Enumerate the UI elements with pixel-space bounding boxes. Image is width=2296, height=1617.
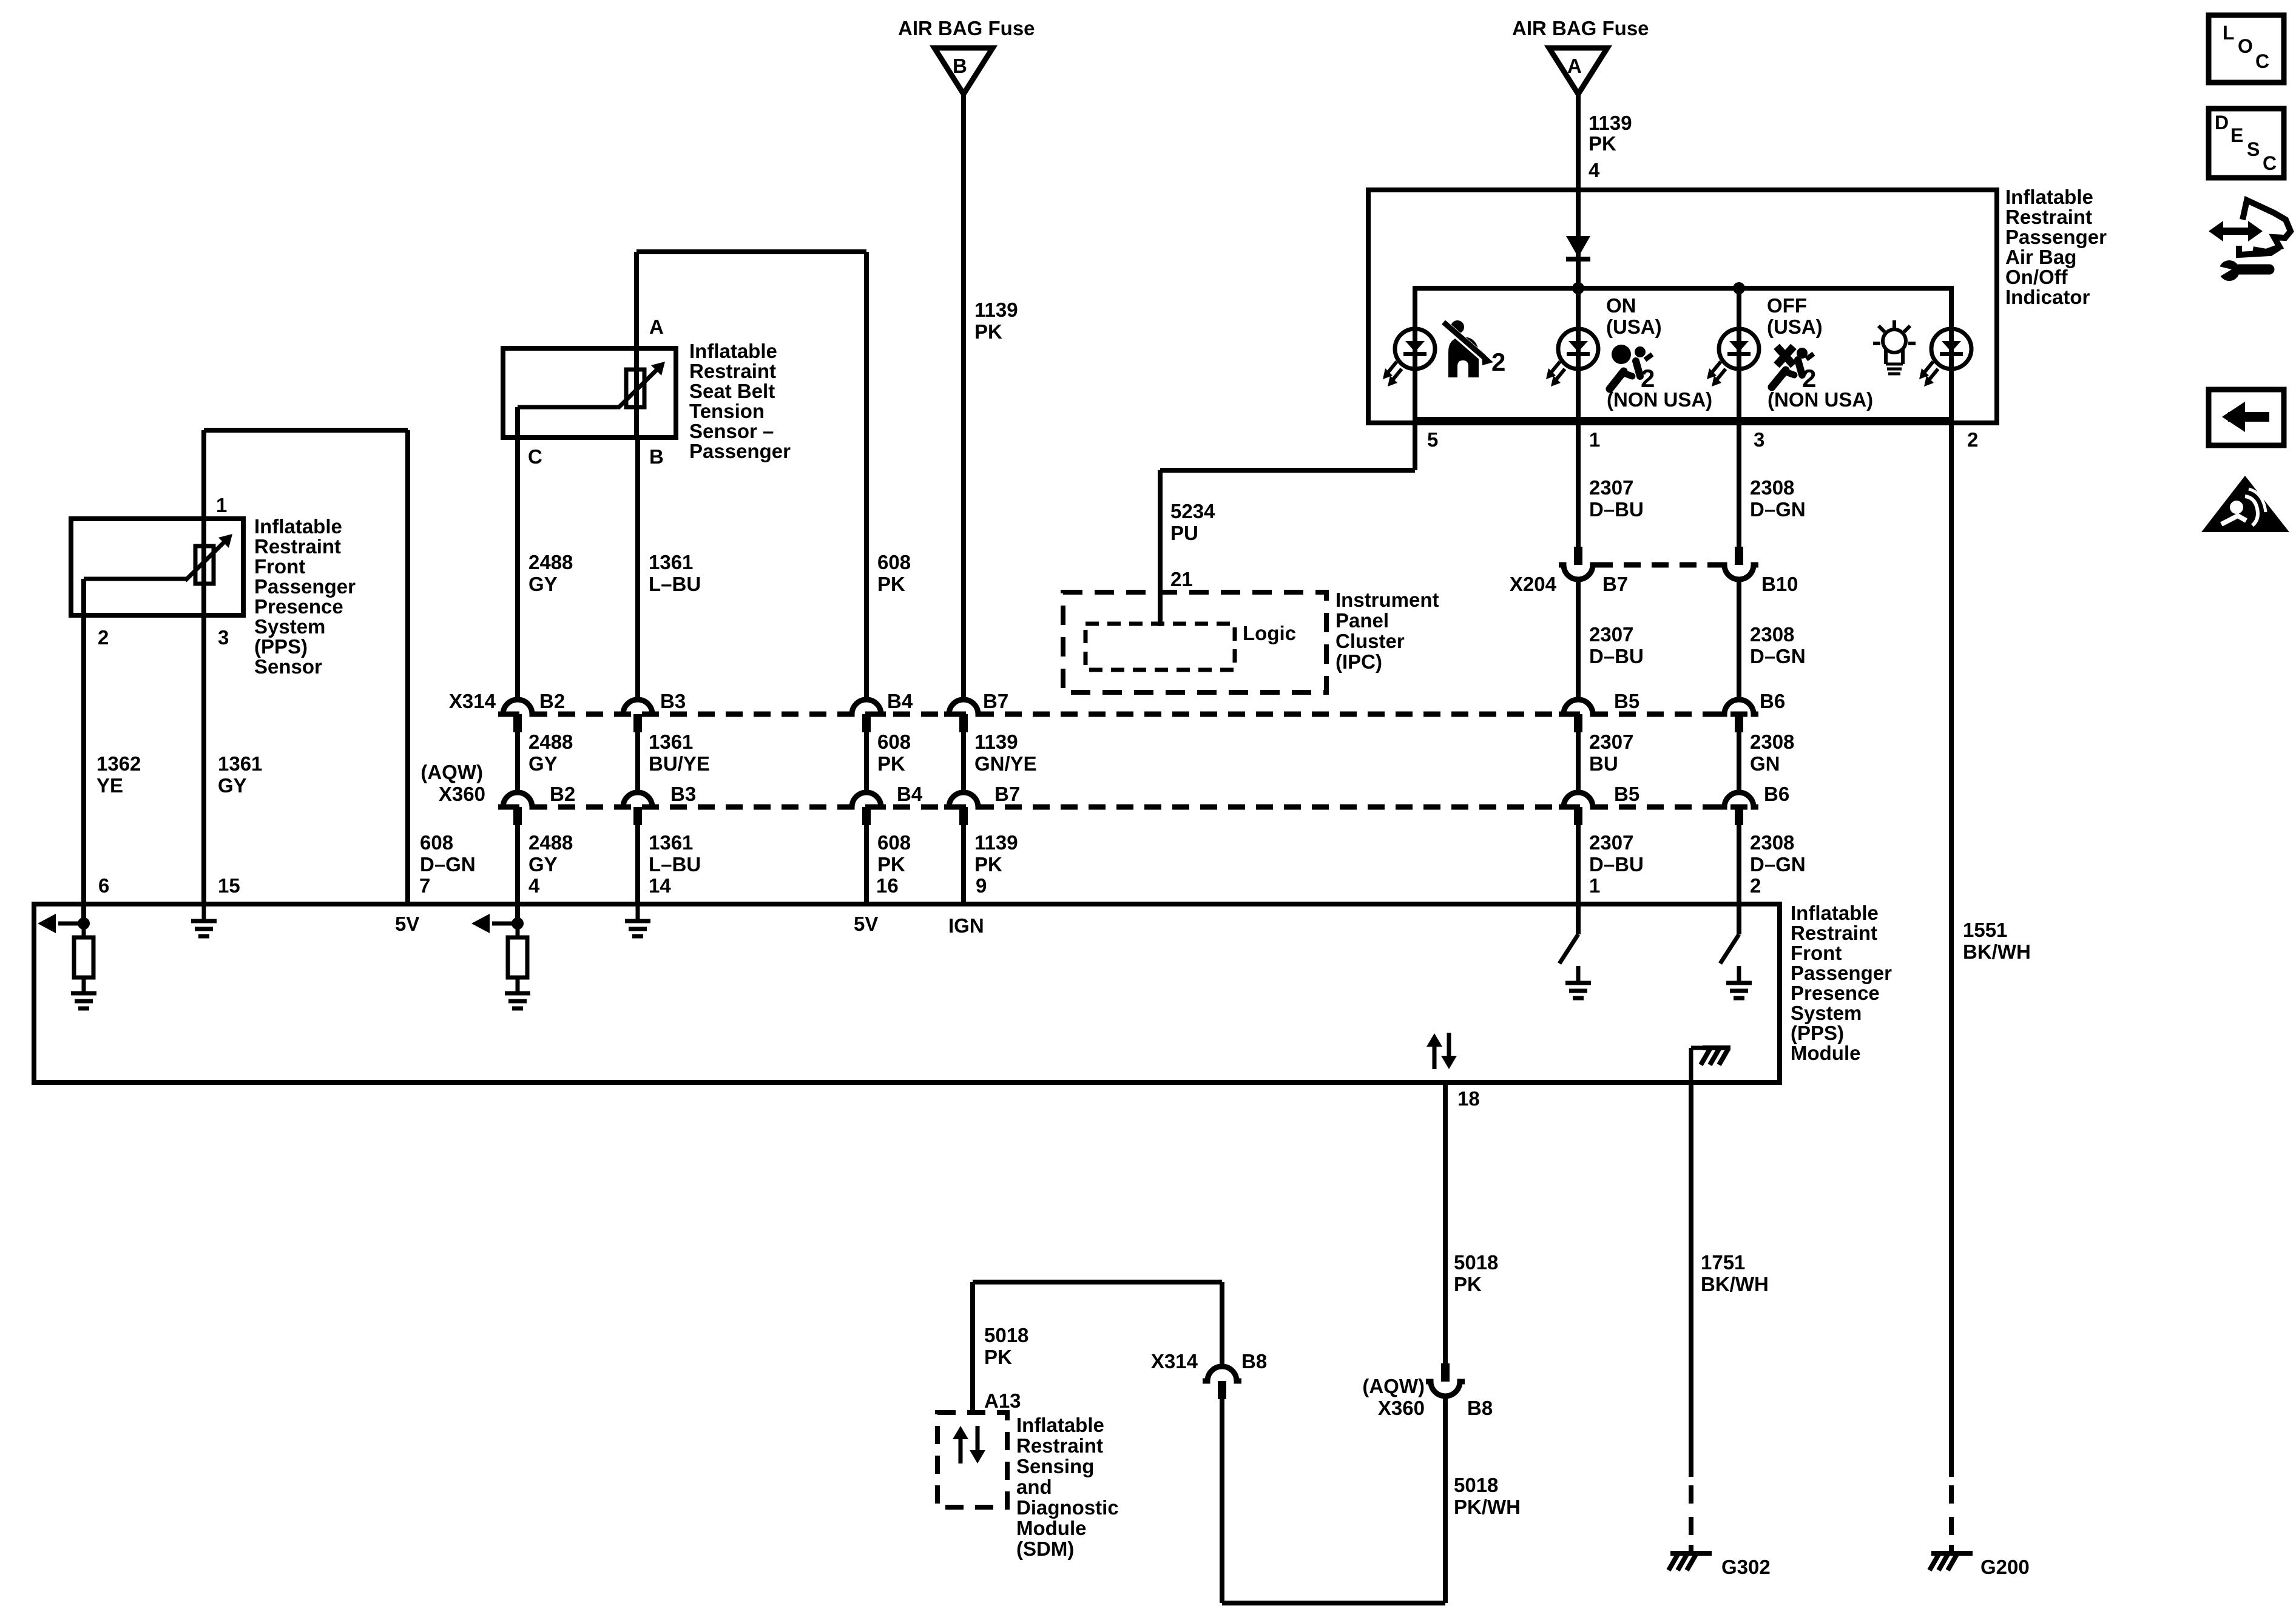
svg-text:Restraint: Restraint xyxy=(1791,922,1877,944)
svg-text:3: 3 xyxy=(218,626,229,649)
connector X360 B2 xyxy=(498,792,537,807)
wire 5018 PK module pin18 to X360 B8 xyxy=(1443,1082,1448,1363)
sidebar wrench-arrow icon xyxy=(2218,228,2254,235)
wire 1139 PK from fuse A to indicator pin 4 xyxy=(1576,94,1581,192)
seat belt icon xyxy=(1451,320,1464,334)
svg-text:5234: 5234 xyxy=(1170,500,1215,522)
svg-text:1: 1 xyxy=(1589,874,1600,897)
svg-text:G200: G200 xyxy=(1980,1556,2030,1578)
svg-text:4: 4 xyxy=(528,874,540,897)
svg-text:Restraint: Restraint xyxy=(2005,206,2092,228)
svg-text:Logic: Logic xyxy=(1243,622,1296,644)
svg-text:7: 7 xyxy=(419,874,430,897)
connector X314 dashed line xyxy=(502,712,1754,717)
svg-text:2488: 2488 xyxy=(528,731,573,753)
svg-text:B4: B4 xyxy=(887,690,913,712)
svg-text:BK/WH: BK/WH xyxy=(1701,1273,1769,1295)
svg-text:2: 2 xyxy=(98,626,109,649)
svg-text:Tension: Tension xyxy=(689,400,765,422)
svg-text:System: System xyxy=(254,615,325,638)
svg-text:21: 21 xyxy=(1170,568,1193,590)
wire between X314 and X360 at x=1588 xyxy=(961,732,966,792)
svg-text:Instrument: Instrument xyxy=(1335,589,1439,611)
svg-text:Air Bag: Air Bag xyxy=(2005,246,2076,268)
instrument panel cluster dashed box xyxy=(1063,592,1326,692)
svg-text:PK: PK xyxy=(974,320,1002,343)
svg-text:X360: X360 xyxy=(439,783,485,805)
svg-text:2308: 2308 xyxy=(1750,731,1794,753)
svg-text:A: A xyxy=(1567,55,1582,77)
connector X314 B5 xyxy=(1559,700,1598,714)
svg-text:D–GN: D–GN xyxy=(420,853,476,876)
wire 1361 GY pin3 to module pin15 xyxy=(201,615,206,906)
connector X360 B5 xyxy=(1559,792,1598,807)
svg-text:B5: B5 xyxy=(1614,690,1639,712)
svg-text:2488: 2488 xyxy=(528,831,573,854)
svg-text:608: 608 xyxy=(877,831,911,854)
module pin1 internal switch to ground xyxy=(1576,906,1581,934)
svg-text:BU/YE: BU/YE xyxy=(649,752,710,775)
svg-text:2: 2 xyxy=(1967,428,1978,451)
connector X314 B6 xyxy=(1720,700,1758,714)
svg-text:(AQW): (AQW) xyxy=(420,761,483,783)
connector X360 B3 xyxy=(618,792,657,807)
svg-text:2307: 2307 xyxy=(1589,831,1633,854)
svg-text:D–GN: D–GN xyxy=(1750,645,1806,667)
svg-text:B: B xyxy=(649,445,664,468)
junction dot pin1 branch xyxy=(1572,282,1584,294)
svg-text:(USA): (USA) xyxy=(1606,316,1662,338)
wire 1139 PK from fuse B to PPS module pin 9 xyxy=(961,94,966,700)
svg-text:Presence: Presence xyxy=(1791,982,1880,1004)
svg-text:2308: 2308 xyxy=(1750,476,1794,499)
svg-text:Module: Module xyxy=(1791,1042,1860,1064)
LED lamp 4 (bulb) xyxy=(1949,288,1954,419)
svg-text:BU: BU xyxy=(1589,752,1618,775)
svg-text:Panel: Panel xyxy=(1335,609,1389,632)
svg-text:B: B xyxy=(953,55,967,77)
resistor arrow (PPS sensor) xyxy=(185,539,228,581)
wire 1362 YE pin2 to module pin6 xyxy=(81,615,86,906)
wire X314 B8 up to SDM loop xyxy=(1220,1282,1224,1366)
svg-text:Sensing: Sensing xyxy=(1016,1455,1094,1477)
svg-text:1: 1 xyxy=(216,494,227,516)
svg-text:OFF: OFF xyxy=(1767,294,1807,317)
wire X360 to module at x=853 xyxy=(515,825,520,906)
svg-text:(SDM): (SDM) xyxy=(1016,1538,1074,1560)
svg-text:1361: 1361 xyxy=(649,831,693,854)
logic dashed box xyxy=(1086,624,1235,670)
module pin2 internal switch to ground xyxy=(1737,906,1741,934)
wire 1361 L-BU pin B to X314 B3 xyxy=(635,437,640,700)
svg-text:(PPS): (PPS) xyxy=(1791,1022,1844,1044)
wire 2488 GY pin C to X314 B2 xyxy=(515,437,520,700)
svg-text:PK: PK xyxy=(877,752,905,775)
svg-text:B4: B4 xyxy=(897,783,923,805)
wire between X314 and X360 at x=1428 xyxy=(864,732,869,792)
svg-text:D–BU: D–BU xyxy=(1589,853,1644,876)
wire 2308 D-GN X204 to B6 xyxy=(1737,579,1741,700)
svg-text:Restraint: Restraint xyxy=(254,535,341,558)
svg-text:2488: 2488 xyxy=(528,551,573,573)
wire fuse A inside indicator xyxy=(1576,190,1581,288)
svg-text:B3: B3 xyxy=(670,783,696,805)
LED lamp 3 (OFF indicator) xyxy=(1737,288,1741,419)
svg-text:2307: 2307 xyxy=(1589,476,1633,499)
svg-text:A: A xyxy=(649,316,664,338)
svg-text:D–GN: D–GN xyxy=(1750,853,1806,876)
svg-text:B3: B3 xyxy=(660,690,686,712)
svg-text:GN/YE: GN/YE xyxy=(974,752,1037,775)
module pin14 internal ground xyxy=(636,906,640,921)
wire PPS sensor pin2 internal xyxy=(84,577,187,581)
wire 5018 PK/WH below X360 B8 xyxy=(1443,1396,1448,1603)
connector X204 dashed line xyxy=(1596,562,1721,568)
svg-text:BK/WH: BK/WH xyxy=(1963,940,2031,963)
connector X360 B7 xyxy=(944,792,983,807)
svg-text:Passenger: Passenger xyxy=(254,575,356,598)
wire 2307 D-BU pin1 to X204 B7 xyxy=(1576,423,1581,547)
variable resistor (seat belt sensor) xyxy=(626,370,644,407)
svg-text:S: S xyxy=(2247,138,2260,160)
svg-text:(PPS): (PPS) xyxy=(254,635,308,658)
svg-text:6: 6 xyxy=(98,874,109,897)
wire between X314 and X360 at x=2866 xyxy=(1737,732,1741,792)
svg-text:Inflatable: Inflatable xyxy=(2005,186,2093,208)
ground G302 xyxy=(1670,1551,1712,1556)
module pin6 internal: arrow, resistor R1, ground xyxy=(81,904,86,923)
wire X360 to module at x=1588 xyxy=(961,825,966,906)
wire PPS sensor pin1 loop xyxy=(201,430,206,519)
wire 1551 BK/WH indicator pin2 to G200 xyxy=(1949,423,1954,1477)
wire 2308 D-GN pin3 to X204 B10 xyxy=(1737,423,1741,547)
LED lamp 2 (ON indicator) xyxy=(1576,288,1581,419)
svg-text:608: 608 xyxy=(877,551,911,573)
dashed wire to G200 xyxy=(1949,1485,1954,1504)
svg-text:GN: GN xyxy=(1750,752,1780,775)
svg-text:(AQW): (AQW) xyxy=(1362,1375,1425,1397)
wire PPS sensor pins 1-3 through resistor xyxy=(201,519,206,615)
svg-text:5: 5 xyxy=(1427,428,1438,451)
svg-text:1: 1 xyxy=(1589,428,1600,451)
svg-text:On/Off: On/Off xyxy=(2005,266,2068,288)
svg-text:2: 2 xyxy=(1491,348,1505,376)
wire between X314 and X360 at x=2601 xyxy=(1576,732,1581,792)
svg-text:2: 2 xyxy=(1750,874,1761,897)
svg-text:E: E xyxy=(2230,124,2243,146)
svg-text:AIR BAG Fuse: AIR BAG Fuse xyxy=(1512,17,1649,39)
svg-text:PK: PK xyxy=(974,853,1002,876)
wire X360 to module at x=2601 xyxy=(1576,825,1581,906)
svg-text:Inflatable: Inflatable xyxy=(254,515,342,538)
svg-text:B6: B6 xyxy=(1760,690,1785,712)
svg-text:2307: 2307 xyxy=(1589,731,1633,753)
svg-text:D: D xyxy=(2215,112,2229,133)
PPS module box xyxy=(34,904,1780,1082)
svg-text:Restraint: Restraint xyxy=(689,360,776,382)
svg-text:Front: Front xyxy=(1791,942,1842,964)
svg-text:ON: ON xyxy=(1606,294,1636,317)
svg-text:PK: PK xyxy=(1589,132,1616,155)
svg-text:AIR BAG Fuse: AIR BAG Fuse xyxy=(898,17,1035,39)
seat belt tension sensor box xyxy=(503,348,676,437)
connector X314 B7 xyxy=(944,700,983,714)
svg-text:D–BU: D–BU xyxy=(1589,645,1644,667)
svg-text:Passenger: Passenger xyxy=(2005,226,2107,248)
svg-text:B2: B2 xyxy=(550,783,575,805)
svg-text:YE: YE xyxy=(96,774,123,797)
svg-text:Indicator: Indicator xyxy=(2005,286,2090,308)
svg-text:5018: 5018 xyxy=(1454,1474,1498,1496)
svg-text:1139: 1139 xyxy=(974,299,1018,321)
indicator inner box xyxy=(1415,288,1951,419)
svg-text:5V: 5V xyxy=(395,913,419,935)
dashed wire to G302 xyxy=(1689,1485,1693,1504)
module pin5 internal chassis ground xyxy=(1689,1048,1693,1082)
bulb icon xyxy=(1883,329,1906,353)
wire between X314 and X360 at x=1051 xyxy=(635,732,640,792)
PPS sensor box xyxy=(71,519,243,615)
svg-text:Sensor –: Sensor – xyxy=(689,420,774,442)
svg-text:2308: 2308 xyxy=(1750,831,1794,854)
connector X360 B6 xyxy=(1720,792,1758,807)
svg-text:Cluster: Cluster xyxy=(1335,630,1405,652)
svg-text:2308: 2308 xyxy=(1750,623,1794,646)
svg-text:1551: 1551 xyxy=(1963,919,2007,941)
svg-text:B7: B7 xyxy=(1602,573,1628,595)
svg-text:5V: 5V xyxy=(854,913,878,935)
svg-text:1139: 1139 xyxy=(974,731,1018,753)
module pin4 internal: arrow, resistor R2, ground xyxy=(515,904,520,923)
svg-text:3: 3 xyxy=(1754,428,1764,451)
wire seat belt sensor pin C internal xyxy=(518,405,620,410)
svg-text:1139: 1139 xyxy=(974,831,1018,854)
svg-text:D–GN: D–GN xyxy=(1750,498,1806,521)
svg-text:15: 15 xyxy=(218,874,240,897)
wire 5018 PK down to SDM A13 xyxy=(970,1282,975,1413)
svg-text:18: 18 xyxy=(1457,1087,1480,1110)
svg-text:B7: B7 xyxy=(983,690,1008,712)
svg-text:(NON USA): (NON USA) xyxy=(1768,388,1873,411)
svg-text:G302: G302 xyxy=(1721,1556,1771,1578)
svg-text:(USA): (USA) xyxy=(1767,316,1823,338)
resistor arrow (seat belt sensor) xyxy=(618,366,660,408)
svg-text:B8: B8 xyxy=(1241,1350,1267,1372)
svg-text:608: 608 xyxy=(877,731,911,753)
svg-text:4: 4 xyxy=(1589,159,1600,181)
sidebar back-arrow box xyxy=(2209,390,2284,445)
wire X360 to module at x=1051 xyxy=(635,825,640,906)
svg-text:C: C xyxy=(528,445,542,468)
airbag person icon (ON) xyxy=(1612,345,1631,364)
ground G200 xyxy=(1931,1551,1973,1556)
wire X360 to module at x=2866 xyxy=(1737,825,1741,906)
wire 5234 PU pin5 to IPC xyxy=(1413,419,1417,470)
svg-text:Passenger: Passenger xyxy=(1791,962,1892,984)
svg-text:IGN: IGN xyxy=(948,914,984,937)
svg-text:B7: B7 xyxy=(994,783,1020,805)
svg-text:System: System xyxy=(1791,1002,1862,1024)
indicator outer box xyxy=(1368,190,1997,423)
svg-text:16: 16 xyxy=(876,874,899,897)
svg-text:O: O xyxy=(2238,35,2253,57)
connector X360 B8 xyxy=(1441,1363,1450,1382)
svg-text:PK: PK xyxy=(877,853,905,876)
svg-text:Sensor: Sensor xyxy=(254,655,322,678)
svg-text:X314: X314 xyxy=(1151,1350,1198,1372)
svg-text:D–BU: D–BU xyxy=(1589,498,1644,521)
connector X314 B3 xyxy=(618,700,657,714)
wire seat belt sensor pin A loop (608 PK) xyxy=(634,252,639,348)
svg-text:B10: B10 xyxy=(1761,573,1798,595)
wire 5018 PK/WH bottom U xyxy=(1222,1601,1445,1605)
svg-text:1361: 1361 xyxy=(649,551,693,573)
connector X314 B8 xyxy=(1203,1366,1241,1381)
SDM internal bidirectional arrows xyxy=(959,1439,963,1463)
connector X360 B4 xyxy=(847,792,886,807)
svg-text:X314: X314 xyxy=(449,690,496,712)
svg-text:GY: GY xyxy=(528,853,558,876)
wire 2307 D-BU X204 to B5 xyxy=(1576,579,1581,700)
wire 5018 PK horizontal to SDM xyxy=(973,1280,1222,1284)
svg-text:(IPC): (IPC) xyxy=(1335,650,1382,673)
svg-text:and: and xyxy=(1016,1476,1052,1498)
svg-text:X360: X360 xyxy=(1378,1397,1425,1419)
svg-text:(NON USA): (NON USA) xyxy=(1607,388,1712,411)
svg-text:PK: PK xyxy=(1454,1273,1482,1295)
svg-text:A13: A13 xyxy=(984,1389,1021,1412)
svg-text:GY: GY xyxy=(528,573,558,595)
svg-text:B8: B8 xyxy=(1467,1397,1493,1419)
airbag person icon with X (OFF) xyxy=(1777,346,1794,365)
svg-text:X204: X204 xyxy=(1510,573,1557,595)
connector X204 B10 xyxy=(1735,547,1743,565)
diode CR1 on indicator feed xyxy=(1566,236,1590,257)
svg-text:B6: B6 xyxy=(1764,783,1789,805)
module pin18 internal bidirectional arrows xyxy=(1433,1047,1437,1069)
svg-text:GY: GY xyxy=(218,774,247,797)
svg-text:Module: Module xyxy=(1016,1517,1086,1539)
svg-text:Passenger: Passenger xyxy=(689,440,791,462)
svg-text:PK/WH: PK/WH xyxy=(1454,1496,1521,1518)
svg-text:1139: 1139 xyxy=(1589,112,1632,134)
sidebar airbag warning triangle xyxy=(2201,476,2289,532)
connector X204 B7 xyxy=(1574,547,1582,565)
svg-text:PK: PK xyxy=(984,1346,1012,1368)
svg-text:1361: 1361 xyxy=(218,752,262,775)
module pin15 internal ground xyxy=(202,906,206,921)
junction dot pin3 branch xyxy=(1733,282,1745,294)
wire seat belt sensor A-B through resistor xyxy=(634,348,639,437)
SDM dashed box xyxy=(937,1413,1007,1507)
svg-text:608: 608 xyxy=(420,831,453,854)
svg-text:GY: GY xyxy=(528,752,558,775)
wire 1751 BK/WH module pin5 to G302 xyxy=(1689,1082,1693,1477)
connector X314 B2 xyxy=(498,700,537,714)
svg-text:Inflatable: Inflatable xyxy=(1016,1414,1104,1436)
svg-text:1362: 1362 xyxy=(96,752,141,775)
svg-text:Seat Belt: Seat Belt xyxy=(689,380,775,402)
svg-text:PK: PK xyxy=(877,573,905,595)
svg-text:B2: B2 xyxy=(539,690,565,712)
svg-text:L–BU: L–BU xyxy=(649,573,701,595)
svg-text:C: C xyxy=(2255,50,2269,72)
svg-text:C: C xyxy=(2263,152,2277,174)
svg-text:Diagnostic: Diagnostic xyxy=(1016,1496,1119,1519)
sidebar DESC box xyxy=(2209,109,2284,178)
svg-text:Front: Front xyxy=(254,555,305,578)
svg-text:Inflatable: Inflatable xyxy=(1791,902,1879,924)
svg-text:1361: 1361 xyxy=(649,731,693,753)
sidebar LOC box xyxy=(2209,15,2284,83)
wire between X314 and X360 at x=853 xyxy=(515,732,520,792)
svg-text:Inflatable: Inflatable xyxy=(689,340,777,362)
svg-text:Restraint: Restraint xyxy=(1016,1434,1103,1457)
wire X360 to module at x=1428 xyxy=(864,825,869,906)
svg-text:9: 9 xyxy=(976,874,987,897)
connector X360 dashed line xyxy=(502,805,1754,810)
svg-text:1751: 1751 xyxy=(1701,1251,1745,1274)
svg-text:14: 14 xyxy=(649,874,671,897)
svg-text:L: L xyxy=(2223,22,2235,44)
svg-text:Presence: Presence xyxy=(254,595,343,618)
svg-text:PU: PU xyxy=(1170,522,1198,544)
svg-text:2307: 2307 xyxy=(1589,623,1633,646)
variable resistor (PPS sensor) xyxy=(195,546,214,584)
svg-text:5018: 5018 xyxy=(984,1324,1028,1346)
svg-text:L–BU: L–BU xyxy=(649,853,701,876)
svg-text:5018: 5018 xyxy=(1454,1251,1498,1274)
svg-text:B5: B5 xyxy=(1614,783,1639,805)
LED lamp 1 (seat belt indicator) xyxy=(1413,288,1417,419)
connector X314 B4 xyxy=(847,700,886,714)
